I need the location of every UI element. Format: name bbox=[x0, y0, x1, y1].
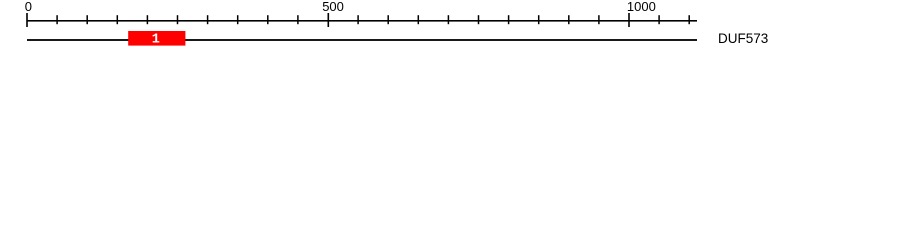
ruler axis line bbox=[27, 20, 697, 22]
motif 1 red box bbox=[128, 31, 185, 46]
minor ticks every 50 units bbox=[56, 15, 690, 24]
svg-text:1000: 1000 bbox=[627, 0, 656, 14]
major tick 0 bbox=[26, 13, 28, 27]
svg-text:0: 0 bbox=[25, 0, 32, 14]
svg-text:DUF573: DUF573 bbox=[718, 31, 768, 46]
major tick 500 bbox=[328, 13, 330, 27]
svg-text:500: 500 bbox=[322, 0, 344, 14]
sequence line bbox=[27, 39, 697, 41]
major tick 1000 bbox=[628, 13, 630, 27]
svg-text:1: 1 bbox=[152, 33, 160, 48]
